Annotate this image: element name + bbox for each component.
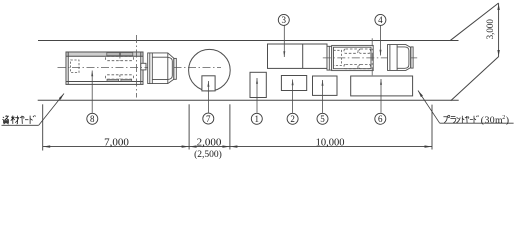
svg-text:7: 7	[206, 114, 211, 124]
equipment rect 2	[281, 76, 306, 91]
circled number 6	[375, 113, 386, 124]
svg-text:4: 4	[378, 15, 383, 25]
truck 4 top wheels dashed	[344, 49, 371, 53]
svg-text:8: 8	[90, 114, 95, 124]
svg-text:6: 6	[378, 114, 383, 124]
leader circled 6	[380, 79, 382, 113]
trailer 8 top wheels	[106, 53, 134, 61]
trailer 8 bottom wheels	[106, 75, 134, 82]
svg-text:3: 3	[282, 15, 287, 25]
trailer 8 body	[66, 52, 143, 84]
svg-text:1: 1	[255, 114, 260, 124]
truck 4 bottom wheels dashed	[344, 64, 371, 68]
svg-text:5: 5	[320, 114, 325, 124]
mixer 7 hopper box	[202, 76, 215, 91]
truck 8 centerline	[58, 66, 222, 68]
mixer circle 7	[189, 49, 231, 91]
leader circled 1	[256, 78, 258, 113]
road top bend diagonal	[450, 3, 499, 41]
trailer 8 kingpin dashed box	[71, 60, 79, 73]
leader circled 4	[380, 25, 382, 55]
tractor cab 8	[148, 53, 177, 84]
road bottom bend diagonal	[451, 57, 499, 101]
truck 4 vertical centerline	[371, 38, 373, 76]
circled number 3	[278, 14, 289, 25]
circled number 2	[287, 113, 298, 124]
truck 4 bed	[332, 45, 374, 70]
truck 4 cab	[388, 45, 414, 71]
truck 4 centerline	[323, 57, 417, 59]
circled number 4	[375, 14, 386, 25]
leader circled 2	[292, 80, 294, 113]
svg-text:2: 2	[290, 114, 295, 124]
svg-text:3,000: 3,000	[485, 19, 495, 40]
road bottom edge	[38, 99, 459, 101]
svg-text:(30m: (30m	[481, 115, 503, 126]
svg-text:7,000: 7,000	[104, 137, 129, 149]
truck 8 vertical centerline	[136, 35, 138, 98]
dimension line	[43, 146, 432, 148]
dimension extension line at x=42.7	[42, 104, 44, 150]
leader circled 3	[283, 25, 285, 57]
circled number 8	[87, 113, 98, 124]
trailer 8 coupler box	[141, 63, 146, 70]
svg-text:10,000: 10,000	[316, 138, 345, 149]
svg-text:(2,500): (2,500)	[194, 149, 222, 159]
plant yard label text (plant yard 30m2)	[443, 115, 478, 123]
equipment rect 3	[268, 44, 328, 68]
dimension arrows	[43, 145, 432, 147]
material yard label leader	[2, 94, 65, 126]
road top edge	[38, 40, 459, 42]
leader circled 7	[207, 81, 209, 113]
leader circled 8	[91, 71, 93, 113]
circled number 5	[317, 113, 328, 124]
dimension extension line at x=432	[431, 105, 433, 150]
svg-text:): )	[506, 115, 509, 126]
plant yard label leader	[418, 91, 514, 124]
svg-text:2,000: 2,000	[197, 137, 222, 149]
circled number 1	[251, 113, 262, 124]
truck 4 kingpin dashed box	[334, 50, 342, 65]
equipment rect 6	[351, 76, 413, 96]
equipment rect 1	[250, 72, 266, 97]
truck 4 tailgate	[327, 46, 332, 70]
dimension 3000 vertical line	[497, 4, 499, 57]
leader circled 5	[322, 80, 324, 113]
material yard label text (shizai yard)	[2, 115, 35, 124]
circled number 7	[203, 113, 214, 124]
equipment rect 5	[313, 76, 338, 95]
dimension extension line at x=189.1	[188, 104, 190, 149]
dimension extension line at x=231.9	[229, 104, 231, 149]
